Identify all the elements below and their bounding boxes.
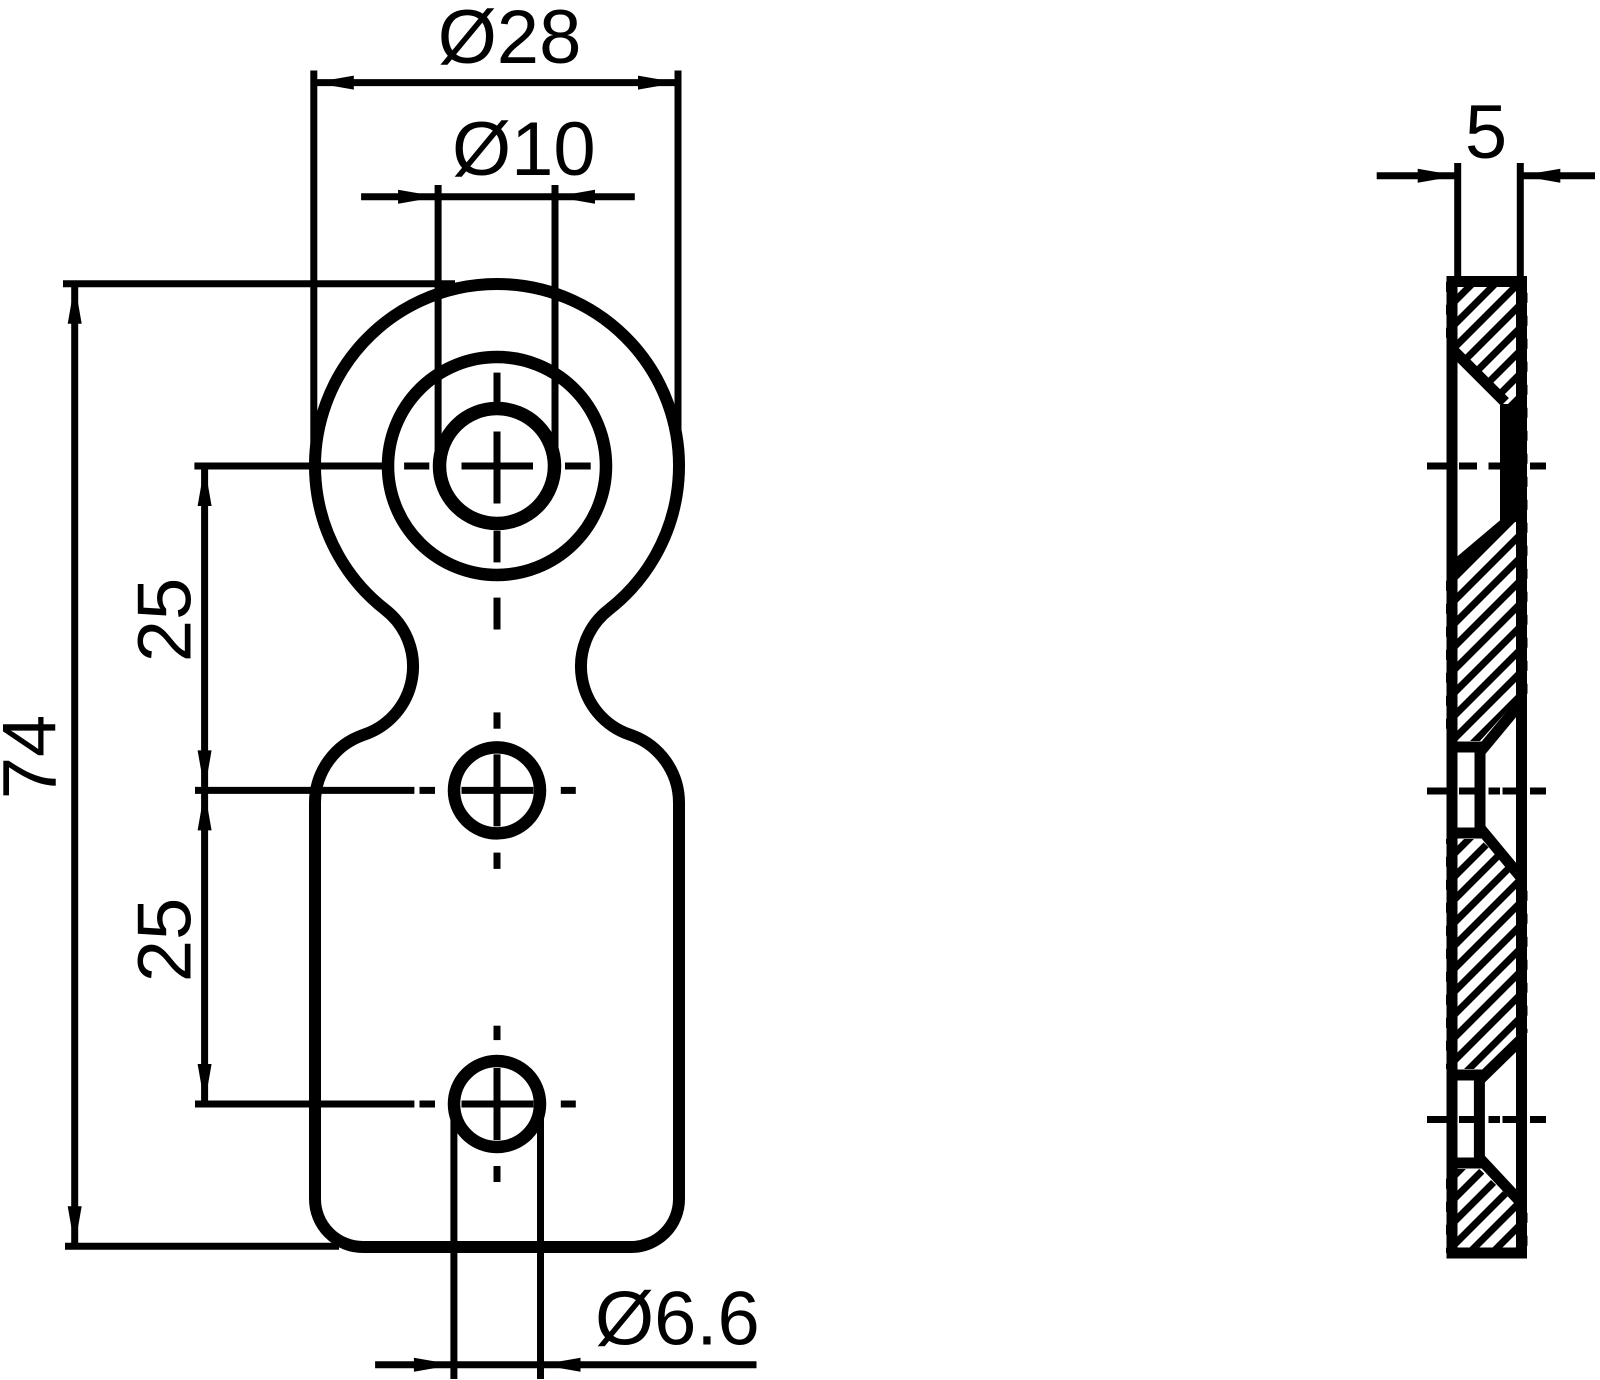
svg-text:Ø10: Ø10 [452, 107, 596, 192]
svg-text:Ø6.6: Ø6.6 [595, 1277, 760, 1362]
svg-text:25: 25 [123, 578, 208, 663]
svg-text:25: 25 [123, 898, 208, 983]
svg-text:74: 74 [0, 715, 73, 800]
svg-text:5: 5 [1465, 90, 1507, 175]
svg-text:Ø28: Ø28 [438, 0, 582, 80]
